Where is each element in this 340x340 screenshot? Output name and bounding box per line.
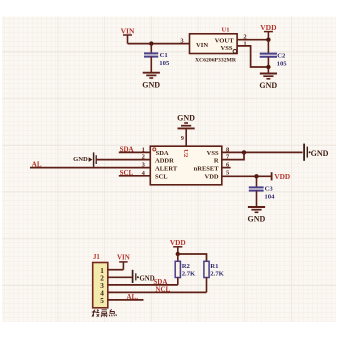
junction VSS/C2/ground <box>266 65 270 69</box>
wire J1 pin 5 (AL) <box>108 299 144 301</box>
wire SCL to U2 pin 4 <box>119 175 151 177</box>
wire C3 to ground <box>256 191 258 207</box>
wire AL to U2 pin 3 <box>30 167 150 169</box>
wire U2 pin 5 VDD to VDD bar <box>222 175 271 177</box>
wire junction down to C3 <box>256 176 258 186</box>
svg-text:105: 105 <box>277 60 288 67</box>
svg-text:SDA: SDA <box>156 150 169 157</box>
wire C2 to lower junction <box>267 57 269 73</box>
resistor R1 <box>204 261 225 277</box>
svg-text:C1: C1 <box>160 52 168 59</box>
ground above U2 (pointing up) <box>177 113 195 146</box>
power port GND bar (VSS net, right) <box>304 144 329 161</box>
svg-text:GND: GND <box>73 156 88 163</box>
power port VIN (bottom) <box>117 254 130 270</box>
svg-text:C3: C3 <box>265 185 274 192</box>
svg-text:GND: GND <box>311 149 329 158</box>
resistor R2 <box>175 261 196 277</box>
svg-text:5: 5 <box>100 297 104 305</box>
power port VDD (top right) <box>260 23 277 40</box>
junction C3 <box>254 174 258 178</box>
svg-text:R1: R1 <box>210 263 218 270</box>
junction at C1 <box>149 41 153 45</box>
wire U1 VOUT pin2 to VDD <box>237 39 268 41</box>
svg-text:VDD: VDD <box>170 238 186 247</box>
svg-text:GND: GND <box>142 80 160 89</box>
svg-text:XC6206P332MR: XC6206P332MR <box>195 57 237 63</box>
ground below C1 <box>142 73 160 90</box>
power port VDD (bottom) <box>170 238 186 254</box>
wire U1 VSS pin1 down and right to ground node <box>237 46 268 67</box>
junction VDD / R1 R2 <box>176 252 180 256</box>
junction VDD / pin2 <box>266 38 270 42</box>
regulator U1 <box>190 27 238 64</box>
svg-text:nRESET: nRESET <box>194 165 220 172</box>
wire SDA to U2 pin 1 <box>119 151 151 153</box>
svg-text:VSS: VSS <box>207 150 219 157</box>
svg-text:VSS: VSS <box>220 45 232 52</box>
wire GND bar to U2 pin 2 <box>96 159 150 161</box>
connector J1 <box>93 263 108 308</box>
capacitor C2 <box>260 52 288 67</box>
svg-text:ADDR: ADDR <box>155 158 174 165</box>
wire U2 pin 8 VSS to GND bar <box>222 151 303 153</box>
svg-text:GND: GND <box>248 215 266 224</box>
wire junction down to C1 <box>150 44 152 53</box>
svg-text:105: 105 <box>159 60 170 67</box>
wire R2 bottom to SDA line <box>177 278 179 285</box>
svg-text:2.7K: 2.7K <box>182 271 196 278</box>
svg-text:1: 1 <box>142 147 145 154</box>
pin 6 stub <box>222 167 231 169</box>
wire J1 pin 2 to GND bar <box>108 276 132 278</box>
junction pins 7/8 <box>242 150 246 154</box>
power port GND bar (J1 pin2) <box>133 270 155 283</box>
svg-text:GND: GND <box>177 113 195 122</box>
svg-text:VIN: VIN <box>117 254 130 262</box>
svg-text:2: 2 <box>142 154 145 161</box>
wire down to C2 <box>267 40 269 53</box>
wire J1 pin 3 to R2 bottom (SDA) <box>108 284 178 286</box>
svg-text:C2: C2 <box>277 52 286 59</box>
wire U2 pin 7 R up to pin 8 net <box>222 152 244 159</box>
svg-text:ALERT: ALERT <box>155 165 178 172</box>
svg-text:GND: GND <box>259 81 277 90</box>
svg-text:U2: U2 <box>182 149 189 158</box>
wire J1 pin 1 to VIN <box>108 269 124 271</box>
wire VIN to U1 pin 3 <box>128 43 190 45</box>
capacitor C3 <box>249 185 275 200</box>
ground below C2 <box>259 74 277 91</box>
wire C1 to ground <box>150 57 152 72</box>
svg-text:VDD: VDD <box>274 172 290 181</box>
svg-text:SCL: SCL <box>155 174 168 181</box>
power port GND bar (ADDR) <box>73 152 96 166</box>
wire J1 pin 4 to R1 bottom (NCL) <box>108 291 207 293</box>
svg-text:VIN: VIN <box>196 42 208 49</box>
svg-text:VOUT: VOUT <box>215 37 235 44</box>
wire R1 bottom to NCL line <box>206 278 208 293</box>
ground below C3 <box>248 207 266 224</box>
sensor U2 <box>150 146 222 185</box>
svg-text:R2: R2 <box>182 263 191 270</box>
power port VIN (top left) <box>121 27 135 44</box>
svg-text:R: R <box>214 158 219 165</box>
svg-text:2.7K: 2.7K <box>210 271 224 278</box>
svg-text:9: 9 <box>181 136 184 142</box>
wire junction to R1 top <box>178 254 207 261</box>
label 烧录点 <box>92 309 117 317</box>
capacitor C1 <box>144 52 170 67</box>
svg-text:J1: J1 <box>93 254 100 261</box>
svg-text:U1: U1 <box>222 27 230 34</box>
wire junction to R2 top <box>177 254 179 261</box>
svg-text:VDD: VDD <box>205 174 219 181</box>
svg-text:104: 104 <box>264 193 275 200</box>
power port VDD (middle) <box>272 172 291 181</box>
